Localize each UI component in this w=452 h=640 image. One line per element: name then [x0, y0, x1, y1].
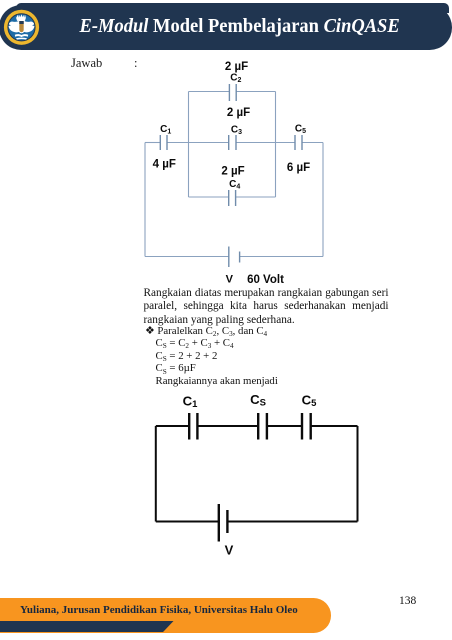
svg-text:C2: C2 — [230, 73, 241, 85]
header pill bar — [0, 5, 452, 50]
circuit 2 — [145, 390, 370, 560]
svg-text:C1: C1 — [160, 124, 171, 136]
svg-text:V: V — [226, 274, 234, 286]
capacitor C4 plates — [229, 190, 236, 206]
header title — [80, 17, 400, 36]
wire main line segments — [145, 142, 160, 144]
svg-text:2 µF: 2 µF — [225, 61, 248, 73]
capacitor C5 plates — [295, 135, 302, 150]
svg-text:2 µF: 2 µF — [221, 165, 244, 177]
battery V plates — [218, 504, 220, 542]
page number — [399, 595, 416, 607]
wire inner rect left — [188, 92, 190, 198]
flame and crown — [16, 14, 26, 21]
book — [15, 34, 28, 37]
svg-text:6 µF: 6 µF — [287, 162, 310, 174]
shield column — [19, 19, 25, 34]
logo Tut Wuri Handayani — [2, 7, 42, 48]
header top band — [16, 3, 449, 13]
capacitor C1 plates — [189, 413, 197, 440]
svg-text:C1: C1 — [183, 394, 199, 411]
footer text — [20, 604, 298, 616]
footer navy parallelogram — [0, 621, 174, 633]
wire inner bottom segments — [189, 196, 229, 198]
svg-text:60 Volt: 60 Volt — [247, 274, 284, 286]
wire right edge — [357, 426, 359, 522]
wire left edge — [155, 426, 157, 522]
svg-text:C3: C3 — [231, 125, 242, 137]
svg-text:C5: C5 — [295, 124, 306, 136]
svg-text:V: V — [225, 543, 234, 558]
capacitor C5 plates — [302, 413, 311, 440]
wire bottom segments — [145, 256, 229, 258]
svg-text:4 µF: 4 µF — [153, 159, 176, 171]
svg-text:2 µF: 2 µF — [227, 107, 250, 119]
wire bottom segments — [156, 521, 219, 523]
capacitor CS plates — [258, 413, 267, 440]
wings — [9, 20, 22, 32]
svg-text:C5: C5 — [302, 393, 318, 410]
wire inner top segments — [189, 91, 230, 93]
capacitor C1 plates — [160, 135, 167, 150]
wire top segments — [156, 425, 189, 427]
wire inner rect right — [275, 92, 277, 198]
svg-text:C4: C4 — [229, 179, 240, 191]
svg-text:CS: CS — [250, 392, 266, 409]
wire outer right — [322, 143, 324, 257]
capacitor C3 plates — [229, 135, 236, 150]
battery V plates — [228, 247, 230, 268]
capacitor C2 plates — [229, 84, 236, 101]
footer orange pill — [0, 598, 331, 633]
circuit 1 — [130, 55, 345, 290]
wire outer left — [144, 143, 146, 257]
Jawab line — [71, 56, 102, 71]
paragraph text — [144, 287, 389, 327]
